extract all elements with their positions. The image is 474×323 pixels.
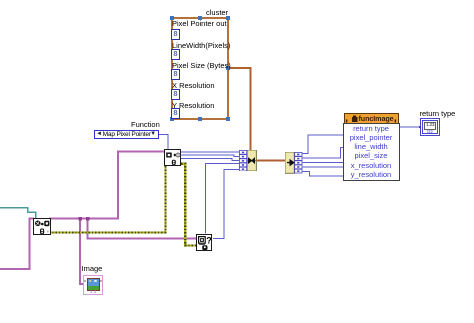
svg-text:?: ? [206, 236, 212, 246]
